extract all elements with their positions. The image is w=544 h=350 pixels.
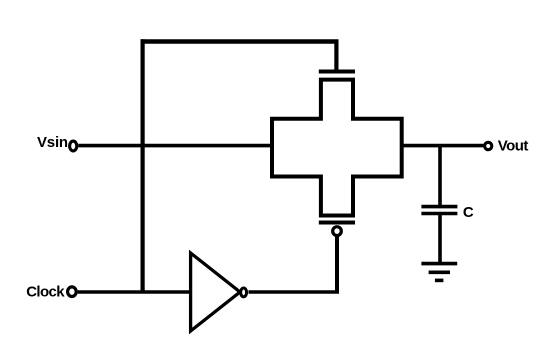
terminal Vsin <box>70 141 77 151</box>
bubble on bottom gate <box>333 227 342 236</box>
capacitor C bottom plate <box>421 212 457 216</box>
svg-text:Vsin: Vsin <box>37 134 68 151</box>
wire: output node down to capacitor <box>438 146 442 205</box>
ground <box>421 262 457 266</box>
transistor top gate bar (PMOS gate of transmission gate) <box>319 70 355 74</box>
svg-text:C: C <box>463 204 474 221</box>
wire: transmission gate to Vout <box>402 144 484 148</box>
wire: left vertical from top rail down to Clock wire <box>141 39 145 292</box>
svg-text:Clock: Clock <box>26 283 65 300</box>
inverter output bubble <box>241 288 247 297</box>
wire: capacitor to ground <box>438 215 442 262</box>
capacitor C top plate <box>421 205 457 209</box>
terminal Vout <box>485 142 492 149</box>
wire: top rail from left vertical to PMOS gate stub <box>141 39 339 44</box>
wire: inverter output to gate drop <box>249 290 340 294</box>
wire: Clock to inverter input <box>78 290 191 294</box>
wire: bottom gate bubble down to inverter output wire <box>335 237 339 292</box>
svg-text:Vout: Vout <box>498 138 529 155</box>
wire: drop from top rail to top gate bar <box>334 42 338 74</box>
transmission gate body (cross/plus outline) <box>272 80 402 216</box>
wire: Vsin to transmission gate <box>78 144 272 148</box>
inverter U1 (triangle) <box>191 253 240 331</box>
transistor bottom gate bar (NMOS gate of transmission gate) <box>319 221 355 225</box>
terminal Clock <box>68 287 77 297</box>
